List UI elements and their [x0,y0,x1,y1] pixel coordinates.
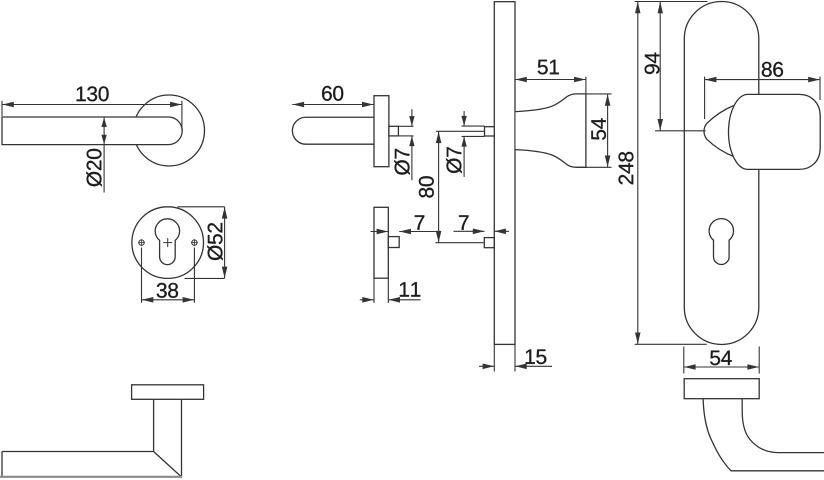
euro profile keyhole [155,219,179,265]
dimension 15 [479,344,552,371]
lever neck top view [154,399,182,477]
dimension 248 [619,2,708,345]
lever grip top view [0,452,182,478]
rose circle of lever handle front view [134,95,205,166]
curved lever bottom view [703,399,824,471]
cylinder stub on long plate [485,127,495,136]
dimension diameter 20 [86,117,107,192]
dimension 7 right [454,215,510,234]
long plate side view [494,2,515,345]
dimension 51 [515,60,586,94]
handle spindle stub [389,126,399,136]
dimension diameter 52 [178,207,228,279]
grip side view rounded bar [292,117,374,144]
dimension 54 side [577,94,612,167]
rose plate top view [132,385,204,400]
knob profile side view [516,94,586,167]
dimension 80 [419,131,485,242]
escutcheon rose circle [132,207,204,279]
dimension 86 [705,62,820,119]
knob neck front view [704,106,735,158]
dimension 130 [2,86,182,130]
dimension 38 [142,248,195,303]
dimension 94 [645,2,706,131]
centre cross mark [163,238,172,247]
dimension 7 left [371,215,437,234]
dimension 11 [360,278,421,303]
escutcheon plate side view [374,207,388,278]
cylinder stub on escutcheon [388,237,399,248]
dimension diameter 7 upper left [394,109,414,180]
dimension 60 [292,86,374,107]
lever grip bar front view [2,117,182,145]
dimension diameter 7 right column [446,111,484,177]
dimension 54 bottom [684,347,759,374]
long plate cross-section bottom view [684,379,759,399]
long plate front view [684,1,759,344]
euro profile keyhole on long plate [709,219,733,265]
rose plate side view upper [374,96,389,167]
cylinder square stub lower on long plate [484,238,494,248]
right screw hole [191,239,198,246]
left screw hole [138,239,145,246]
knob body front view [729,94,821,169]
